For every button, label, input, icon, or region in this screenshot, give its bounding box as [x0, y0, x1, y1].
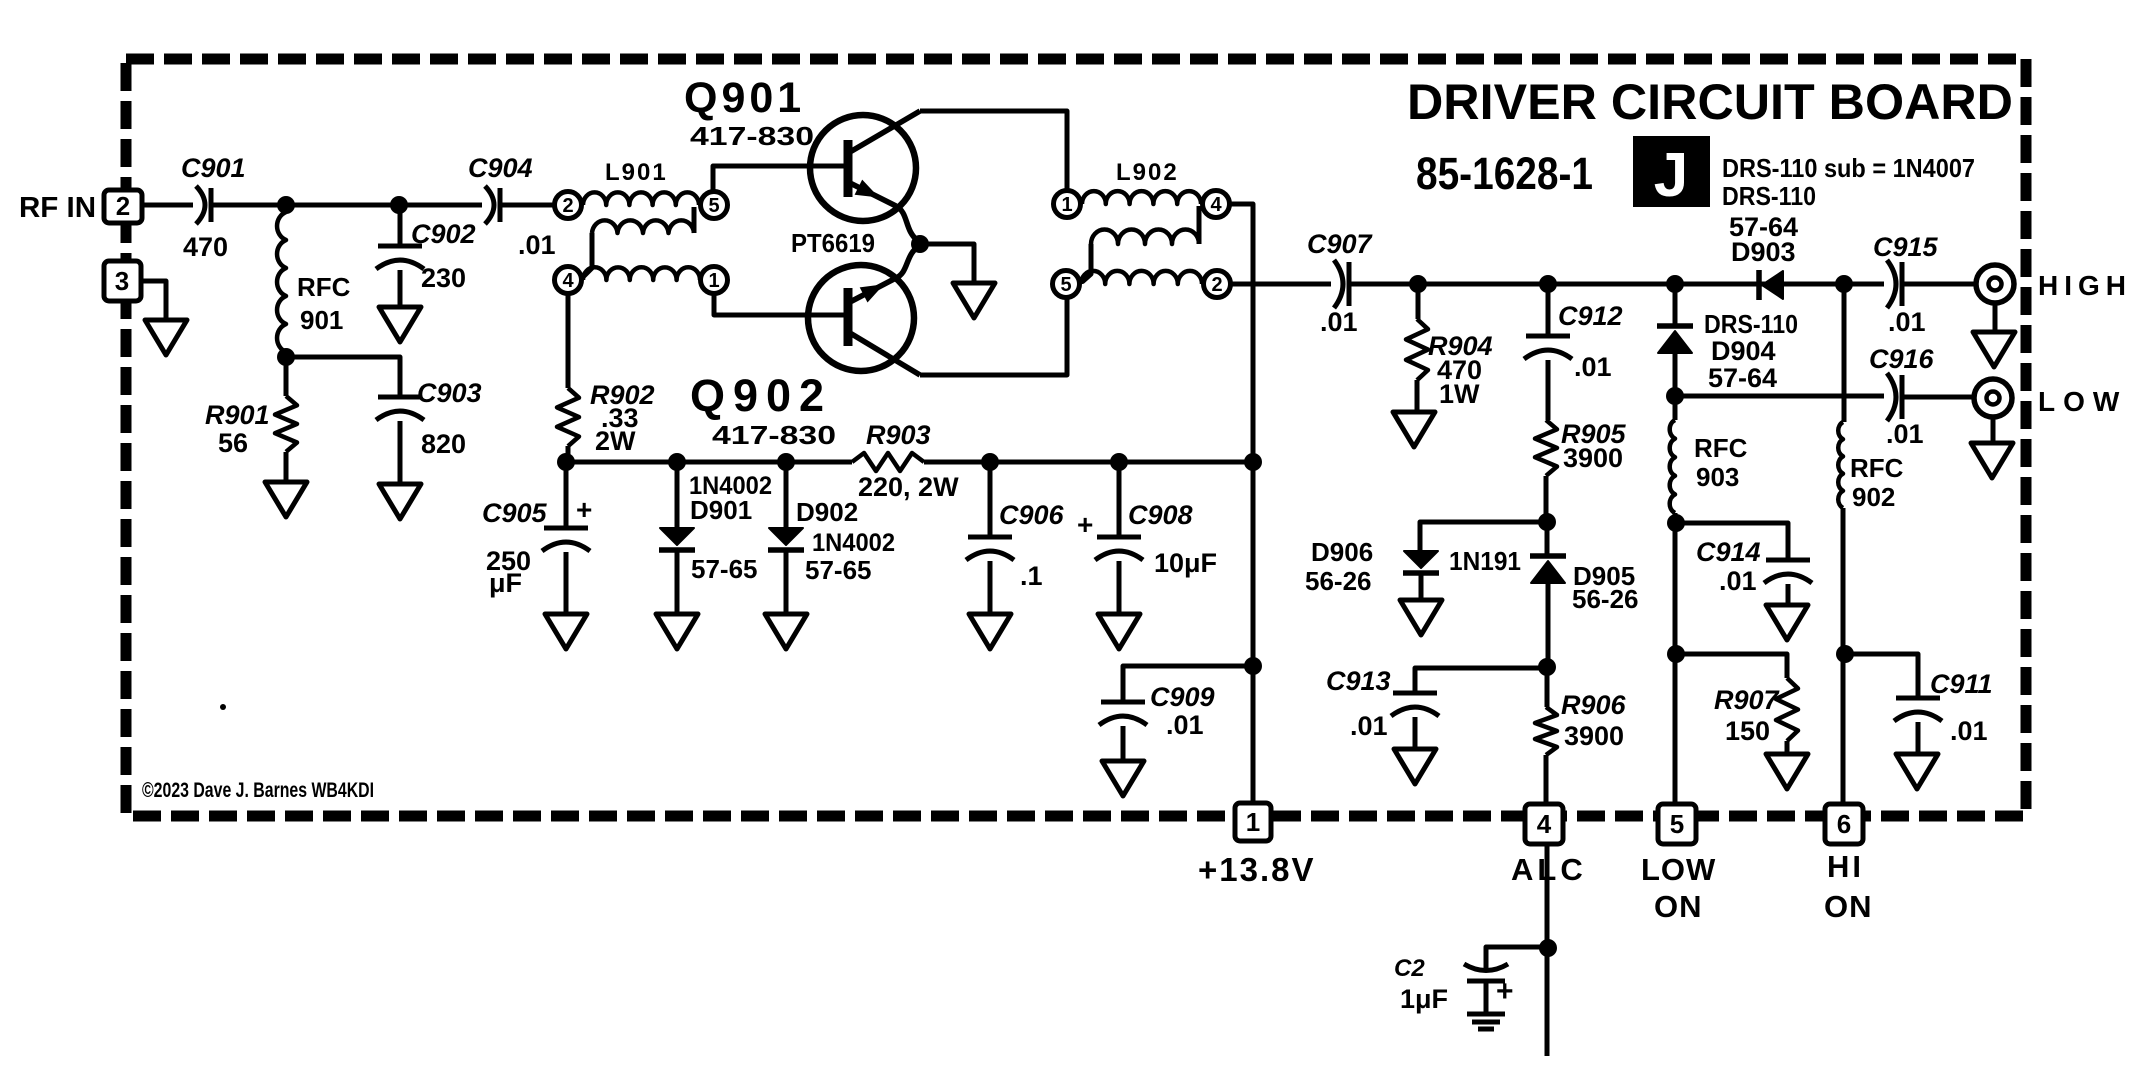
svg-text:.01: .01 — [1719, 566, 1757, 596]
L901 winding 4-1 bottom — [583, 267, 700, 280]
svg-text:L901: L901 — [605, 159, 668, 186]
wire — [924, 460, 1253, 465]
L901 pin 1 — [701, 267, 728, 294]
capacitor C914 — [1676, 523, 1812, 605]
svg-text:C909: C909 — [1150, 682, 1215, 712]
svg-text:3: 3 — [115, 266, 129, 296]
capacitor C2 — [1394, 947, 1548, 1014]
capacitor C906 — [966, 462, 1065, 614]
transistor Q902 — [690, 246, 920, 450]
svg-text:Q901: Q901 — [684, 74, 805, 122]
wire — [212, 203, 482, 208]
resistor R904 — [1406, 284, 1493, 412]
svg-text:RFC: RFC — [1694, 433, 1748, 463]
wire — [920, 244, 974, 283]
svg-text:820: 820 — [421, 429, 466, 459]
L901 pin 5 — [701, 192, 728, 219]
svg-text:C912: C912 — [1558, 301, 1623, 331]
svg-text:D902: D902 — [796, 497, 858, 527]
svg-text:470: 470 — [183, 232, 228, 262]
L902 winding 5-2 bottom — [1081, 271, 1202, 284]
svg-text:R901: R901 — [205, 400, 270, 430]
terminal 2 RF IN — [19, 190, 142, 224]
ground — [1400, 600, 1442, 635]
capacitor C903 — [376, 378, 482, 484]
L902 winding link right — [1197, 206, 1202, 244]
svg-text:LOW: LOW — [2038, 386, 2127, 417]
junction — [277, 348, 295, 366]
svg-text:5: 5 — [1670, 809, 1684, 839]
svg-text:LOW: LOW — [1641, 852, 1716, 887]
svg-text:D904: D904 — [1711, 336, 1776, 366]
part number 85-1628-1 — [1416, 148, 1593, 199]
svg-text:1N191: 1N191 — [1449, 546, 1521, 576]
svg-text:C905: C905 — [482, 498, 548, 528]
inductor RFC903 — [1670, 396, 1748, 805]
svg-text:2W: 2W — [595, 426, 636, 456]
svg-text:2: 2 — [1211, 274, 1222, 296]
wire — [1903, 282, 1976, 287]
svg-text:85-1628-1: 85-1628-1 — [1416, 148, 1593, 199]
L902 pin 2 — [1204, 271, 1231, 298]
svg-text:D901: D901 — [690, 495, 752, 525]
svg-text:1: 1 — [1061, 194, 1072, 216]
ground — [265, 482, 307, 517]
svg-text:C913: C913 — [1326, 666, 1391, 696]
ground — [145, 320, 187, 355]
wire — [920, 299, 1067, 375]
capacitor C904 — [468, 153, 556, 260]
svg-text:1W: 1W — [1439, 379, 1480, 409]
capacitor C902 — [376, 205, 476, 307]
ground — [1896, 754, 1938, 789]
wire — [1350, 282, 1884, 287]
svg-text:150: 150 — [1725, 716, 1770, 746]
L902 pin 5 — [1053, 271, 1080, 298]
svg-text:C907: C907 — [1307, 229, 1374, 259]
svg-text:.01: .01 — [1574, 352, 1612, 382]
L902 pin 1 — [1054, 191, 1081, 218]
svg-text:2: 2 — [116, 191, 130, 221]
svg-text:R903: R903 — [866, 420, 931, 450]
svg-text:D903: D903 — [1731, 237, 1796, 267]
svg-text:HI: HI — [1827, 849, 1864, 884]
svg-text:C904: C904 — [468, 153, 533, 183]
svg-text:.01: .01 — [1320, 307, 1358, 337]
svg-text:3900: 3900 — [1563, 443, 1623, 473]
wire — [713, 166, 846, 191]
svg-text:R907: R907 — [1714, 685, 1781, 715]
wire — [501, 203, 554, 208]
svg-text:+: + — [1496, 975, 1514, 1008]
capacitor C916 — [1869, 344, 1935, 449]
diode D902 — [768, 462, 895, 614]
diode D903 — [1729, 212, 1798, 300]
ground — [953, 283, 995, 318]
svg-text:DRIVER CIRCUIT BOARD: DRIVER CIRCUIT BOARD — [1407, 74, 2013, 130]
svg-text:L902: L902 — [1116, 159, 1179, 186]
resistor R907 — [1676, 654, 1798, 754]
resistor R905 — [1535, 419, 1627, 522]
svg-text:ON: ON — [1824, 889, 1873, 924]
svg-text:901: 901 — [300, 305, 343, 335]
title text DRIVER CIRCUIT BOARD — [1407, 74, 2013, 130]
junction — [1244, 657, 1262, 675]
ground — [545, 614, 587, 649]
wire — [1230, 204, 1253, 805]
ground — [969, 614, 1011, 649]
wire — [566, 294, 571, 388]
capacitor C915 — [1873, 232, 1939, 337]
junction — [981, 453, 999, 471]
junction — [1539, 939, 1557, 957]
junction — [557, 453, 575, 471]
svg-text:56-26: 56-26 — [1572, 584, 1639, 614]
terminal 1 +13.8V — [1198, 803, 1316, 888]
svg-text:10μF: 10μF — [1154, 548, 1217, 578]
transformer L901 — [605, 159, 668, 186]
svg-text:DRS-110: DRS-110 — [1722, 181, 1816, 211]
svg-text:C902: C902 — [411, 219, 476, 249]
svg-text:C901: C901 — [181, 153, 246, 183]
svg-text:902: 902 — [1852, 482, 1895, 512]
inductor RFC901 — [277, 212, 351, 352]
svg-text:.01: .01 — [1350, 711, 1388, 741]
svg-text:DRS-110 sub = 1N4007: DRS-110 sub = 1N4007 — [1722, 153, 1975, 183]
svg-text:5: 5 — [1060, 274, 1071, 296]
diode D901 — [659, 462, 772, 614]
resistor R902 — [557, 380, 655, 462]
capacitor C909 — [1099, 666, 1253, 761]
junction — [1666, 387, 1684, 405]
L901 pin 4 — [555, 267, 582, 294]
svg-text:J: J — [1654, 141, 1688, 210]
capacitor C905 — [482, 462, 592, 614]
ground — [1102, 761, 1144, 796]
capacitor C907 — [1307, 229, 1374, 337]
svg-text:.01: .01 — [1888, 307, 1926, 337]
L901 winding link left — [583, 233, 592, 277]
terminal 5 LOW ON — [1641, 804, 1716, 924]
capacitor C912 — [1524, 284, 1623, 420]
ground — [1098, 614, 1140, 649]
diode D904 — [1657, 284, 1798, 396]
capacitor C911 — [1845, 654, 1993, 754]
wire — [1420, 522, 1547, 551]
ground — [1971, 443, 2013, 478]
connector HIGH — [1976, 265, 2132, 332]
svg-text:56: 56 — [218, 428, 248, 458]
terminal 6 HI ON — [1824, 804, 1873, 924]
node emitter junction — [911, 235, 929, 253]
svg-text:4: 4 — [1210, 194, 1222, 216]
svg-text:+: + — [576, 494, 592, 525]
wire — [714, 294, 846, 315]
ground — [379, 307, 421, 342]
resistor R903 — [852, 420, 959, 502]
wire — [142, 203, 193, 208]
junction — [1538, 513, 1556, 531]
resistor R901 — [205, 357, 297, 482]
svg-text:6: 6 — [1837, 809, 1851, 839]
svg-text:57-65: 57-65 — [805, 555, 872, 585]
svg-text:4: 4 — [1537, 809, 1552, 839]
ground — [1766, 605, 1808, 640]
svg-text:903: 903 — [1696, 462, 1739, 492]
wire — [141, 281, 166, 320]
svg-text:R906: R906 — [1561, 690, 1627, 720]
svg-text:DRS-110: DRS-110 — [1704, 309, 1798, 339]
svg-text:230: 230 — [421, 263, 466, 293]
svg-text:C914: C914 — [1696, 537, 1761, 567]
svg-text:.01: .01 — [1886, 419, 1924, 449]
wire — [1231, 282, 1331, 287]
capacitor C901 — [181, 153, 246, 262]
junction — [668, 453, 686, 471]
revision box J — [1633, 136, 1710, 210]
junction — [777, 453, 795, 471]
terminal 4 ALC — [1511, 804, 1587, 887]
note DRS-110 sub = 1N4007 — [1722, 153, 1975, 211]
junction — [1667, 514, 1685, 532]
diode D906 — [1305, 537, 1521, 600]
wire — [286, 357, 400, 397]
wire +13.8V bus — [566, 460, 852, 465]
svg-text:5: 5 — [708, 195, 719, 217]
svg-text:3900: 3900 — [1564, 721, 1624, 751]
junction — [1110, 453, 1128, 471]
junction — [1244, 453, 1262, 471]
svg-text:220, 2W: 220, 2W — [858, 472, 959, 502]
wire — [1903, 395, 1974, 400]
svg-text:417-830: 417-830 — [712, 420, 836, 450]
L901 winding 2-5 top — [583, 192, 699, 205]
connector LOW — [1974, 379, 2127, 443]
svg-text:1μF: 1μF — [1400, 984, 1448, 1014]
junction — [1836, 645, 1854, 663]
ground — [1393, 412, 1435, 447]
wire — [1545, 844, 1550, 1056]
L902 winding middle — [1091, 229, 1199, 244]
svg-text:C908: C908 — [1128, 500, 1193, 530]
transistor Q901 — [684, 74, 920, 258]
svg-text:.1: .1 — [1020, 561, 1043, 591]
ground — [1766, 754, 1808, 789]
svg-text:μF: μF — [489, 568, 522, 598]
svg-text:57-64: 57-64 — [1708, 363, 1777, 393]
capacitor C908 — [1077, 462, 1217, 614]
L902 pin 4 — [1203, 191, 1230, 218]
svg-text:C915: C915 — [1873, 232, 1939, 262]
svg-text:C906: C906 — [999, 500, 1065, 530]
inductor RFC902 — [1838, 284, 1903, 805]
node input junction — [277, 196, 295, 214]
wire — [920, 111, 1067, 190]
transformer L902 — [1116, 159, 1179, 186]
svg-text:RF IN: RF IN — [19, 192, 96, 224]
junction — [390, 196, 408, 214]
svg-text:2: 2 — [562, 195, 573, 217]
svg-text:Q902: Q902 — [690, 370, 832, 421]
junction — [1538, 658, 1556, 676]
ground — [1394, 749, 1436, 784]
svg-text:56-26: 56-26 — [1305, 566, 1372, 596]
L902 winding 1-4 top — [1082, 191, 1201, 204]
svg-text:©2023 Dave J. Barnes WB4KDI: ©2023 Dave J. Barnes WB4KDI — [142, 779, 374, 802]
svg-text:417-830: 417-830 — [690, 121, 814, 151]
svg-text:HIGH: HIGH — [2038, 270, 2132, 301]
svg-text:RFC: RFC — [297, 272, 351, 302]
capacitor C913 — [1326, 666, 1439, 749]
svg-text:1N4002: 1N4002 — [812, 529, 895, 557]
svg-text:.01: .01 — [1166, 710, 1204, 740]
svg-text:C903: C903 — [417, 378, 482, 408]
junction — [1409, 275, 1427, 293]
svg-text:1: 1 — [708, 270, 719, 292]
svg-text:1: 1 — [1246, 807, 1260, 837]
ground — [379, 484, 421, 519]
L901 winding middle — [592, 220, 694, 233]
junction — [1835, 275, 1853, 293]
junction — [1667, 645, 1685, 663]
junction — [1666, 275, 1684, 293]
ground — [765, 614, 807, 649]
terminal 3 — [104, 261, 141, 301]
svg-text:C2: C2 — [1394, 955, 1425, 982]
wire — [1415, 668, 1547, 693]
wire LOW line — [1675, 394, 1884, 399]
L902 winding link left — [1082, 244, 1091, 282]
junction — [1539, 275, 1557, 293]
L901 winding link right — [692, 207, 697, 233]
svg-text:ON: ON — [1654, 889, 1703, 924]
resistor R906 — [1535, 667, 1627, 806]
earth ground — [1467, 981, 1505, 1029]
svg-text:PT6619: PT6619 — [791, 228, 875, 258]
svg-text:RFC: RFC — [1850, 453, 1904, 483]
svg-text:D906: D906 — [1311, 537, 1373, 567]
L901 pin 2 — [555, 192, 582, 219]
svg-text:+13.8V: +13.8V — [1198, 851, 1316, 888]
svg-text:57-65: 57-65 — [691, 554, 758, 584]
svg-text:+: + — [1077, 509, 1093, 540]
svg-text:.01: .01 — [1950, 716, 1988, 746]
diode D905 — [1530, 522, 1639, 667]
copyright text — [142, 704, 374, 802]
svg-text:.01: .01 — [518, 230, 556, 260]
ground — [1973, 332, 2015, 367]
svg-text:4: 4 — [562, 270, 574, 292]
ground — [656, 614, 698, 649]
svg-text:C911: C911 — [1930, 669, 1993, 699]
svg-text:C916: C916 — [1869, 344, 1935, 374]
